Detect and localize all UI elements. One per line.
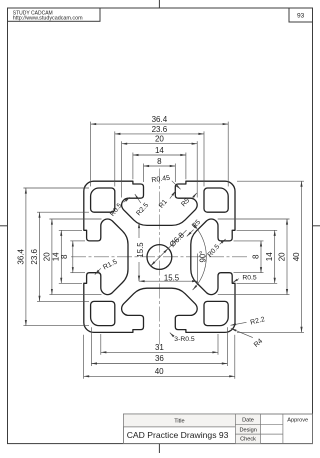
svg-text:Design: Design: [239, 427, 256, 433]
svg-text:36.4: 36.4: [152, 115, 168, 124]
svg-text:15.5: 15.5: [164, 273, 180, 282]
svg-text:8: 8: [60, 254, 69, 259]
svg-text:14: 14: [265, 252, 274, 261]
svg-text:31: 31: [155, 343, 164, 352]
svg-text:15.5: 15.5: [136, 242, 145, 258]
svg-text:Title: Title: [174, 418, 184, 424]
svg-text:http://www.studycadcam.com: http://www.studycadcam.com: [13, 16, 83, 22]
svg-text:36.4: 36.4: [16, 248, 25, 264]
svg-text:8: 8: [157, 157, 162, 166]
svg-text:20: 20: [42, 252, 51, 261]
svg-text:Check: Check: [240, 437, 256, 443]
svg-text:Approve: Approve: [287, 417, 308, 423]
svg-text:40: 40: [155, 367, 164, 376]
svg-text:CAD Practice Drawings 93: CAD Practice Drawings 93: [127, 430, 229, 440]
svg-text:20: 20: [277, 252, 286, 261]
svg-text:8: 8: [251, 254, 260, 259]
svg-text:23.6: 23.6: [152, 125, 168, 134]
svg-text:R0.5: R0.5: [242, 274, 257, 281]
svg-text:90°: 90°: [198, 251, 207, 263]
svg-text:3-R0.5: 3-R0.5: [174, 336, 195, 343]
svg-text:14: 14: [155, 146, 164, 155]
svg-text:36: 36: [155, 354, 164, 363]
svg-text:20: 20: [155, 135, 164, 144]
svg-text:40: 40: [292, 252, 301, 261]
svg-text:93: 93: [297, 13, 305, 20]
svg-text:23.6: 23.6: [30, 248, 39, 264]
svg-text:Date: Date: [242, 418, 254, 424]
